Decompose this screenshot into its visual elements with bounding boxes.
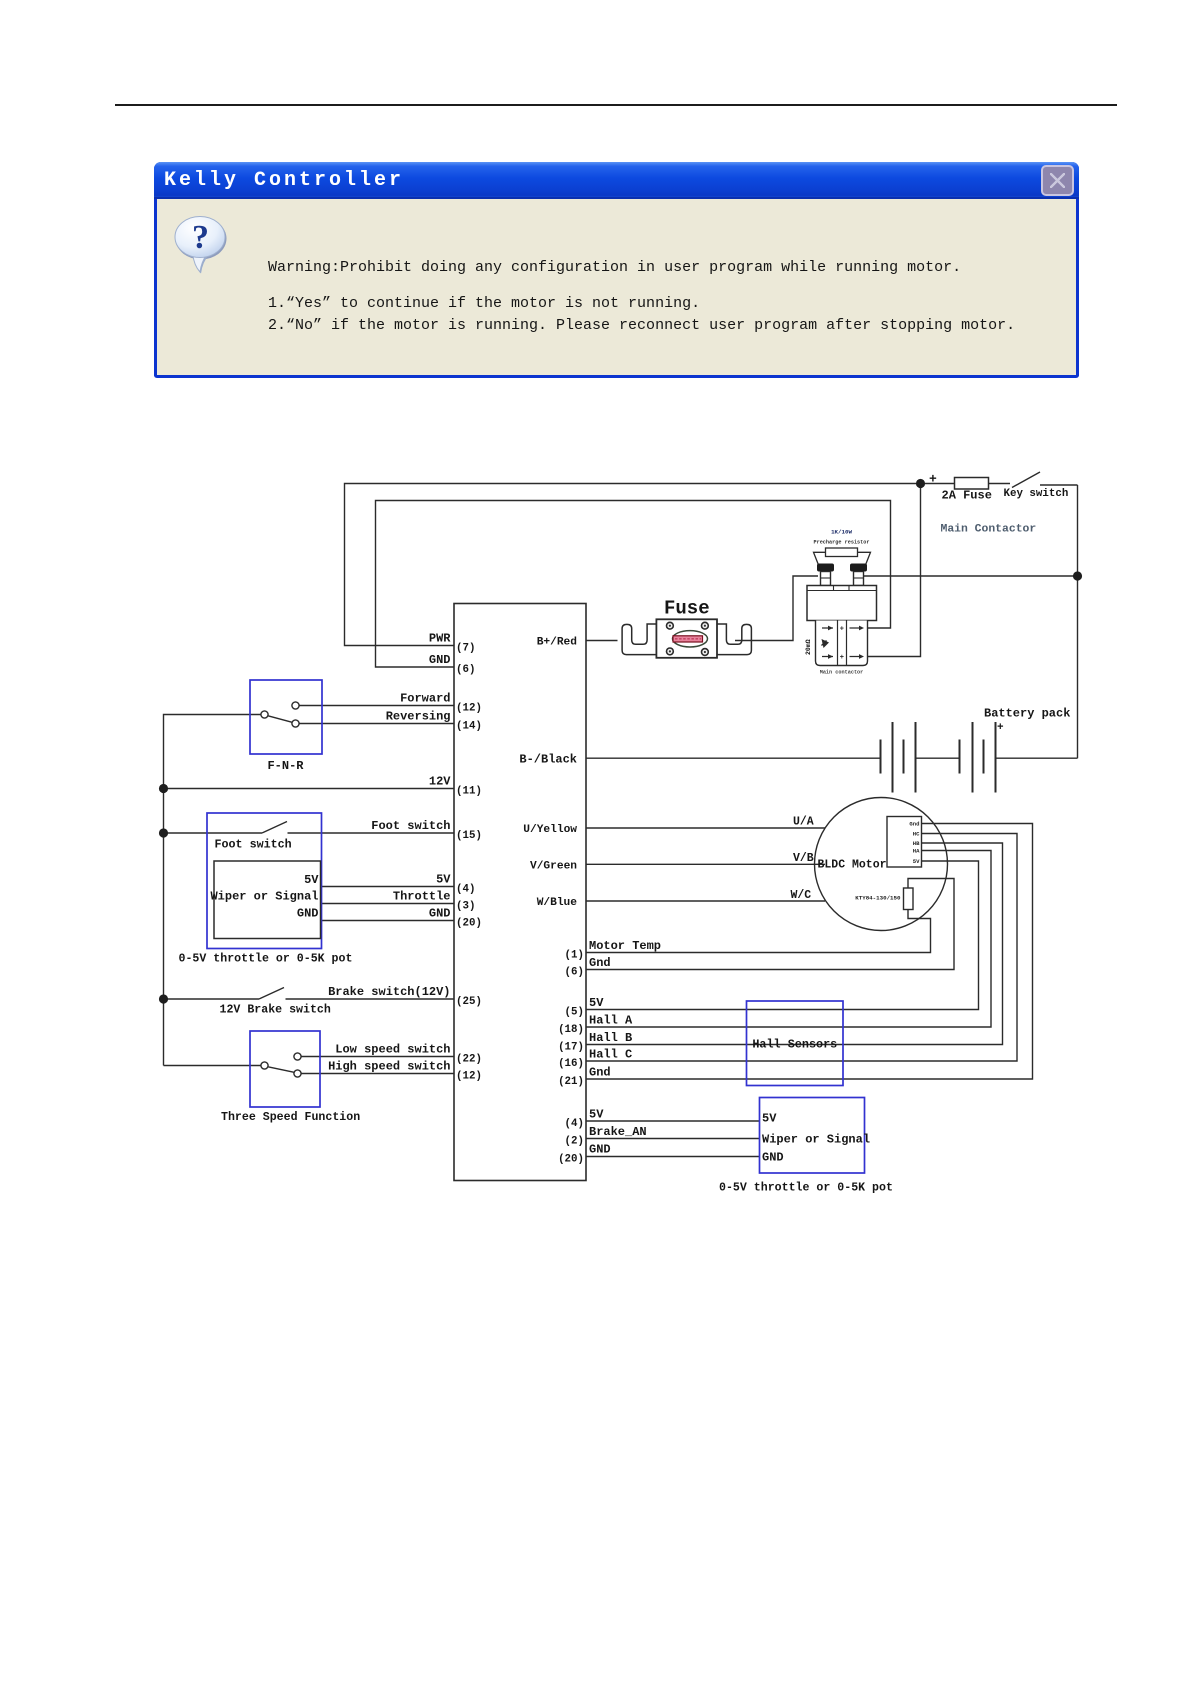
svg-text:Hall Sensors: Hall Sensors (752, 1038, 837, 1052)
svg-text:5V: 5V (589, 996, 604, 1010)
svg-text:(7): (7) (456, 643, 475, 655)
svg-text:Key switch: Key switch (1004, 488, 1069, 500)
svg-text:V/Green: V/Green (530, 861, 577, 873)
svg-text:Low speed switch: Low speed switch (335, 1043, 450, 1057)
svg-text:Fuse: Fuse (664, 598, 710, 620)
svg-text:GND: GND (297, 907, 319, 921)
svg-text:GND: GND (589, 1143, 611, 1157)
svg-text:(4): (4) (565, 1118, 584, 1130)
svg-text:5V: 5V (589, 1108, 604, 1122)
svg-text:(25): (25) (456, 996, 482, 1008)
svg-text:Gnd: Gnd (589, 1066, 611, 1080)
svg-text:+: + (929, 472, 937, 487)
svg-text:0-5V throttle or 0-5K pot: 0-5V throttle or 0-5K pot (179, 953, 353, 966)
svg-text:V/B: V/B (793, 852, 814, 865)
svg-text:B-/Black: B-/Black (519, 752, 577, 766)
svg-text:GND: GND (762, 1151, 784, 1165)
svg-text:HB: HB (913, 840, 920, 847)
svg-text:(18): (18) (558, 1024, 584, 1036)
svg-text:0-5V throttle or 0-5K pot: 0-5V throttle or 0-5K pot (719, 1182, 893, 1195)
svg-text:Hall A: Hall A (589, 1014, 633, 1028)
svg-text:12V: 12V (429, 775, 451, 789)
svg-text:(17): (17) (558, 1042, 584, 1054)
svg-text:W/C: W/C (791, 889, 812, 902)
svg-text:(12): (12) (456, 703, 482, 715)
svg-text:5V: 5V (436, 873, 451, 887)
svg-text:(6): (6) (565, 967, 584, 979)
svg-text:Brake_AN: Brake_AN (589, 1125, 647, 1139)
svg-text:(12): (12) (456, 1071, 482, 1083)
svg-text:GND: GND (429, 907, 451, 921)
svg-text:U/Yellow: U/Yellow (523, 824, 577, 836)
svg-text:Main Contactor: Main Contactor (941, 524, 1037, 536)
svg-text:Foot switch: Foot switch (371, 819, 450, 833)
svg-text:GND: GND (429, 653, 451, 667)
svg-text:(5): (5) (565, 1007, 584, 1019)
svg-text:+: + (997, 722, 1004, 734)
svg-text:(11): (11) (456, 786, 482, 798)
svg-text:5V: 5V (304, 873, 319, 887)
svg-text:Main contactor: Main contactor (820, 670, 864, 676)
svg-text:(1): (1) (565, 950, 584, 962)
svg-text:BLDC Motor: BLDC Motor (818, 859, 887, 872)
svg-text:(6): (6) (456, 664, 475, 676)
svg-text:(3): (3) (456, 901, 475, 913)
svg-text:12V Brake switch: 12V Brake switch (220, 1004, 331, 1017)
svg-text:(2): (2) (565, 1136, 584, 1148)
svg-text:(21): (21) (558, 1076, 584, 1088)
svg-text:5V: 5V (913, 858, 920, 865)
svg-text:Wiper or Signal: Wiper or Signal (762, 1133, 870, 1147)
svg-text:Wiper or Signal: Wiper or Signal (210, 890, 318, 904)
svg-text:HA: HA (913, 848, 920, 855)
svg-text:Precharge resistor: Precharge resistor (813, 540, 869, 546)
svg-text:HC: HC (913, 831, 920, 838)
svg-text:Gnd: Gnd (909, 821, 919, 828)
svg-text:(20): (20) (558, 1154, 584, 1166)
svg-text:B+/Red: B+/Red (537, 637, 577, 649)
svg-text:W/Blue: W/Blue (537, 897, 578, 909)
svg-text:(20): (20) (456, 918, 482, 930)
svg-text:PWR: PWR (429, 632, 451, 646)
svg-text:High speed switch: High speed switch (328, 1060, 450, 1074)
svg-text:(15): (15) (456, 830, 482, 842)
svg-text:Brake switch(12V): Brake switch(12V) (328, 985, 450, 999)
svg-text:(22): (22) (456, 1054, 482, 1066)
svg-text:Gnd: Gnd (589, 956, 611, 970)
svg-text:Motor Temp: Motor Temp (589, 939, 661, 953)
svg-text:+: + (840, 626, 844, 634)
svg-text:+: + (840, 654, 844, 662)
svg-text:Hall B: Hall B (589, 1031, 632, 1045)
svg-text:F-N-R: F-N-R (267, 759, 304, 773)
svg-text:(4): (4) (456, 884, 475, 896)
svg-text:2A Fuse: 2A Fuse (942, 489, 992, 503)
svg-text:Battery pack: Battery pack (984, 707, 1070, 721)
svg-text:Forward: Forward (400, 692, 450, 706)
svg-text:1K/10W: 1K/10W (831, 529, 852, 536)
svg-text:5V: 5V (762, 1112, 777, 1126)
svg-text:Reversing: Reversing (386, 710, 451, 724)
svg-text:Three Speed Function: Three Speed Function (221, 1111, 360, 1124)
svg-text:Throttle: Throttle (393, 890, 451, 904)
svg-text:KTY84-130/150: KTY84-130/150 (855, 895, 901, 902)
svg-text:U/A: U/A (793, 816, 814, 829)
svg-text:(14): (14) (456, 721, 482, 733)
svg-text:20mΩ: 20mΩ (805, 639, 812, 655)
svg-text:Foot switch: Foot switch (215, 838, 292, 852)
svg-text:Hall C: Hall C (589, 1048, 632, 1062)
svg-text:(16): (16) (558, 1058, 584, 1070)
